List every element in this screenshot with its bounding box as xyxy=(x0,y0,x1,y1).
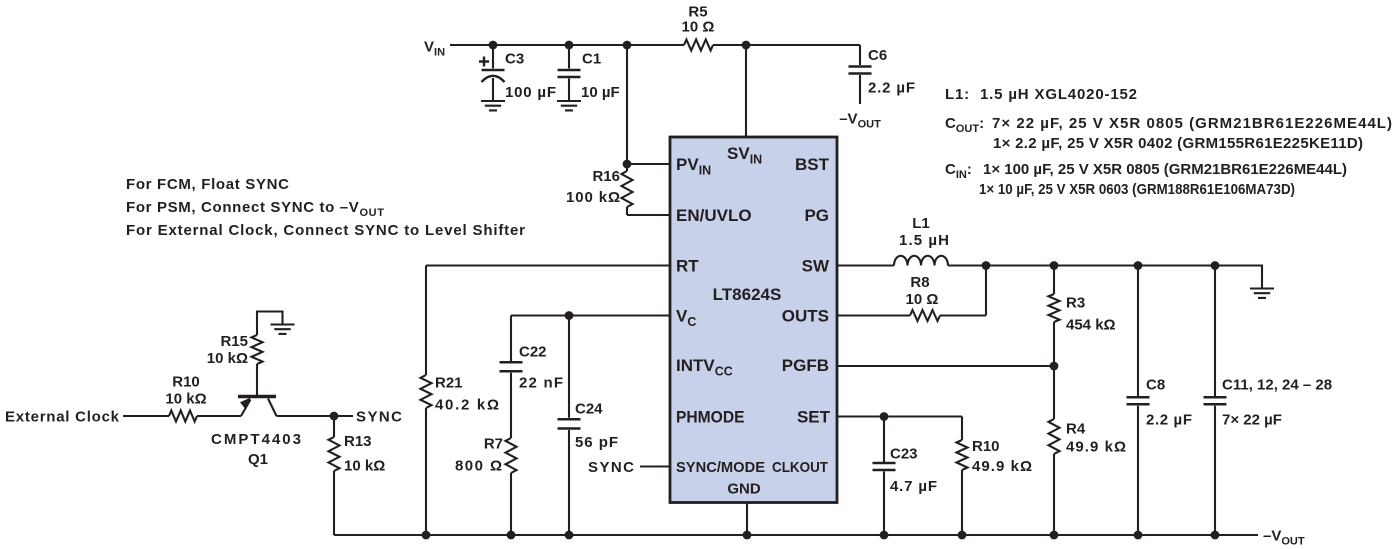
svg-text:R16: R16 xyxy=(592,168,620,185)
wire PVIN branch xyxy=(626,45,628,164)
svg-text:C1: C1 xyxy=(582,51,601,68)
svg-text:EN/UVLO: EN/UVLO xyxy=(676,206,752,225)
svg-text:R8: R8 xyxy=(910,274,929,291)
svg-text:–VOUT: –VOUT xyxy=(1263,528,1305,548)
svg-text:800 Ω: 800 Ω xyxy=(455,458,502,475)
svg-text:22 nF: 22 nF xyxy=(519,375,563,392)
svg-text:R3: R3 xyxy=(1066,295,1085,312)
wire clock to R10 xyxy=(123,415,169,417)
svg-text:C23: C23 xyxy=(890,446,918,463)
wire VIN to R5 xyxy=(450,44,684,46)
inductor L1 xyxy=(894,215,949,266)
svg-text:R10: R10 xyxy=(172,374,200,391)
junction rail R7 xyxy=(507,531,516,540)
svg-text:56 pF: 56 pF xyxy=(575,434,618,451)
ground C1 xyxy=(557,101,581,110)
wire RT xyxy=(426,264,670,266)
svg-text:OUTS: OUTS xyxy=(782,307,829,326)
resistor R21 xyxy=(421,266,500,536)
capacitor C11,12,24-28 xyxy=(1204,266,1333,536)
svg-text:C3: C3 xyxy=(505,51,524,68)
wire collector to SYNC xyxy=(277,415,335,417)
wire PGFB xyxy=(837,365,1054,367)
svg-text:For PSM, Connect SYNC to –VOUT: For PSM, Connect SYNC to –VOUT xyxy=(126,199,384,219)
junction VC-C24 xyxy=(565,311,574,320)
svg-text:PHMODE: PHMODE xyxy=(676,408,745,427)
junction rail C11 xyxy=(1211,531,1220,540)
junction PVIN node xyxy=(623,160,632,169)
wire GND stub xyxy=(746,503,748,536)
wire SVIN branch xyxy=(745,45,747,137)
resistor R15 xyxy=(207,311,263,368)
wire SET xyxy=(837,415,962,417)
svg-text:SET: SET xyxy=(797,408,831,427)
junction SW rail C11 xyxy=(1211,261,1220,270)
resistor R8 xyxy=(906,266,986,322)
transistor Q1 xyxy=(211,364,301,468)
junction R5-SVIN xyxy=(742,41,751,50)
junction L1-R8 xyxy=(982,261,991,270)
svg-text:10 Ω: 10 Ω xyxy=(906,291,939,308)
wire SYNC stub xyxy=(334,415,353,417)
svg-text:C8: C8 xyxy=(1146,377,1165,394)
capacitor C24 xyxy=(558,316,619,536)
svg-text:7× 22 µF, 25 V X5R 0805 (GRM2: 7× 22 µF, 25 V X5R 0805 (GRM21BR61E226ME… xyxy=(992,115,1392,132)
svg-text:External Clock: External Clock xyxy=(5,409,120,426)
svg-text:7× 22 µF: 7× 22 µF xyxy=(1222,412,1282,429)
junction rail C8 xyxy=(1134,531,1143,540)
svg-text:10 Ω: 10 Ω xyxy=(682,19,715,36)
ground C3 xyxy=(481,101,505,110)
svg-text:SYNC/MODE: SYNC/MODE xyxy=(676,459,765,476)
ground Q1 base xyxy=(271,325,295,334)
svg-text:R15: R15 xyxy=(220,333,248,350)
resistor R3 xyxy=(1049,266,1116,367)
svg-text:1× 2.2 µF, 25 V X5R 0402 (GRM: 1× 2.2 µF, 25 V X5R 0402 (GRM155R61E225K… xyxy=(993,135,1363,152)
wire R15 to ground xyxy=(257,312,283,325)
svg-text:L1: L1 xyxy=(912,215,930,232)
svg-text:R13: R13 xyxy=(344,433,372,450)
svg-text:For FCM, Float SYNC: For FCM, Float SYNC xyxy=(126,176,289,193)
svg-text:R4: R4 xyxy=(1066,421,1086,438)
junction C3 xyxy=(489,41,498,50)
resistor R4 xyxy=(1049,366,1127,535)
svg-text:GND: GND xyxy=(727,481,761,498)
junction SW rail R3 xyxy=(1050,261,1059,270)
svg-text:C22: C22 xyxy=(519,344,547,361)
svg-text:–VOUT: –VOUT xyxy=(839,111,881,131)
capacitor C1 xyxy=(558,45,620,102)
resistor R7 xyxy=(455,436,517,536)
capacitor C22 xyxy=(500,316,564,439)
svg-text:454 kΩ: 454 kΩ xyxy=(1066,317,1116,334)
svg-text:100 µF: 100 µF xyxy=(505,84,556,101)
svg-text:For External Clock, Connect SY: For External Clock, Connect SYNC to Leve… xyxy=(126,222,525,239)
capacitor C23 xyxy=(873,417,938,536)
wire SW rail xyxy=(948,266,1262,289)
svg-text:BST: BST xyxy=(795,155,830,174)
wire SW to L1 xyxy=(837,264,894,266)
wire EN/UVLO to IC xyxy=(627,214,670,216)
svg-text:1.5 µH: 1.5 µH xyxy=(899,232,949,249)
wire VC xyxy=(511,314,670,316)
svg-text:LT8624S: LT8624S xyxy=(713,285,782,304)
resistor R5 xyxy=(682,4,715,51)
svg-text:2.2 µF: 2.2 µF xyxy=(868,80,915,97)
svg-text:CIN:: CIN: xyxy=(945,161,972,181)
svg-text:PGFB: PGFB xyxy=(782,356,829,375)
svg-text:C11, 12, 24 – 28: C11, 12, 24 – 28 xyxy=(1222,377,1332,394)
junction SET-C23 xyxy=(880,412,889,421)
junction rail GND xyxy=(743,531,752,540)
resistor R13 xyxy=(329,416,386,535)
svg-text:SW: SW xyxy=(802,257,830,276)
wire R5 to C6 branch xyxy=(713,44,860,46)
svg-text:4.7 µF: 4.7 µF xyxy=(890,478,937,495)
junction C1 xyxy=(565,41,574,50)
svg-text:RT: RT xyxy=(676,257,699,276)
resistor R16 xyxy=(566,164,633,215)
junction rail R10 xyxy=(958,531,967,540)
svg-text:VIN: VIN xyxy=(424,39,445,59)
junction PGFB-R3-R4 xyxy=(1050,362,1059,371)
svg-text:CLKOUT: CLKOUT xyxy=(772,459,828,476)
wire bottom rail xyxy=(334,534,1258,536)
svg-text:COUT:: COUT: xyxy=(945,115,984,135)
svg-text:L1: 1.5 µH XGL4020-152: L1: 1.5 µH XGL4020-152 xyxy=(945,86,1137,103)
capacitor C6 xyxy=(849,45,916,104)
ground output xyxy=(1250,289,1274,298)
svg-text:49.9 kΩ: 49.9 kΩ xyxy=(1066,439,1126,456)
resistor R10 (clock) xyxy=(165,374,206,422)
wire OUTS to R8 xyxy=(837,314,910,316)
svg-text:40.2 kΩ: 40.2 kΩ xyxy=(435,397,499,414)
svg-text:10 kΩ: 10 kΩ xyxy=(165,391,206,408)
svg-text:49.9 kΩ: 49.9 kΩ xyxy=(972,458,1032,475)
resistor R10 (SET) xyxy=(957,417,1033,536)
svg-text:10 µF: 10 µF xyxy=(581,84,620,101)
junction rail C23 xyxy=(880,531,889,540)
svg-text:Q1: Q1 xyxy=(248,451,268,468)
svg-text:PG: PG xyxy=(804,206,829,225)
junction SW rail C8 xyxy=(1134,261,1143,270)
svg-text:R21: R21 xyxy=(435,375,463,392)
svg-text:C24: C24 xyxy=(575,401,603,418)
junction SYNC node xyxy=(330,412,339,421)
svg-text:10 kΩ: 10 kΩ xyxy=(344,458,385,475)
wire PVIN to IC xyxy=(627,163,670,165)
svg-text:2.2 µF: 2.2 µF xyxy=(1146,412,1192,429)
svg-text:CMPT4403: CMPT4403 xyxy=(211,431,301,448)
op-amp U1 LT8624S body xyxy=(670,137,837,503)
junction PVIN branch xyxy=(623,41,632,50)
svg-text:R10: R10 xyxy=(972,438,1000,455)
capacitor C3 xyxy=(479,45,556,102)
junction rail R21 xyxy=(422,531,431,540)
svg-text:R7: R7 xyxy=(484,436,503,453)
junction rail R4 xyxy=(1050,531,1059,540)
svg-text:10 kΩ: 10 kΩ xyxy=(207,350,248,367)
wire R10 to Q1 xyxy=(197,415,241,417)
svg-text:SYNC: SYNC xyxy=(588,459,634,476)
svg-text:1× 100 µF, 25 V X5R 0805 (GRM2: 1× 100 µF, 25 V X5R 0805 (GRM21BR61E226M… xyxy=(983,161,1347,178)
svg-text:100 kΩ: 100 kΩ xyxy=(566,189,620,206)
svg-text:SYNC: SYNC xyxy=(356,409,402,426)
svg-text:1× 10 µF, 25 V X5R 0603 (GRM18: 1× 10 µF, 25 V X5R 0603 (GRM188R61E106MA… xyxy=(979,181,1295,198)
junction rail C24 xyxy=(565,531,574,540)
capacitor C8 xyxy=(1127,266,1193,536)
wire SYNC to IC xyxy=(640,465,670,467)
svg-text:C6: C6 xyxy=(868,47,887,64)
